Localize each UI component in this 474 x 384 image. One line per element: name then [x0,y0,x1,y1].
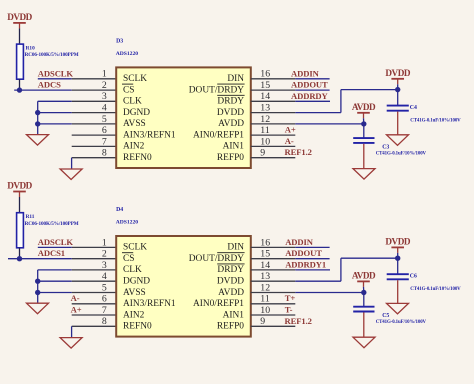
svg-text:8: 8 [102,148,107,159]
power symbol AVDD [352,102,376,118]
power symbol DVDD [385,237,410,253]
svg-text:R10: R10 [26,46,35,52]
wire DVDD net pin13 [295,87,400,113]
wire R10 lead [19,79,21,90]
power symbol AVDD [352,271,376,287]
wire AVDD drop [363,118,365,124]
svg-text:ADSCLK: ADSCLK [38,68,74,78]
svg-text:2: 2 [102,249,107,260]
svg-text:DRDY: DRDY [217,97,244,107]
ground [60,338,82,349]
svg-text:D4: D4 [116,207,123,213]
svg-text:4: 4 [102,103,107,114]
node REF1.2 label [285,316,312,326]
node ADSCLK label [38,237,74,247]
svg-text:REFP0: REFP0 [217,153,244,163]
wire DVDD net pin13 [295,256,400,282]
svg-text:A+: A+ [71,305,82,315]
svg-text:CS: CS [123,254,134,264]
resistor R11 [17,213,79,248]
svg-text:14: 14 [260,91,270,102]
svg-text:CT41G-0.1uF/10%/100V: CT41G-0.1uF/10%/100V [376,152,427,157]
svg-text:AVSS: AVSS [123,288,146,298]
pin numbers 16-9 [260,69,270,159]
svg-text:DOUT/DRDY: DOUT/DRDY [189,85,244,95]
svg-text:REFN0: REFN0 [123,322,152,332]
svg-text:ADCS: ADCS [38,80,61,90]
svg-text:ADDRDY: ADDRDY [291,91,329,101]
pin numbers 1-8 [102,237,107,327]
IC D3 left pins 1-8 [72,79,117,158]
svg-text:3: 3 [102,91,107,102]
svg-text:2: 2 [102,80,107,91]
svg-text:5: 5 [102,114,107,125]
svg-text:SCLK: SCLK [123,243,147,253]
svg-text:7: 7 [102,136,107,147]
wire DVDD to R10 [19,28,21,44]
svg-text:12: 12 [260,282,270,293]
svg-text:16: 16 [260,237,270,248]
svg-text:5: 5 [102,282,107,293]
resistor R10 [17,44,79,79]
svg-text:1: 1 [102,237,107,248]
wire REFN0 to ground [71,158,73,169]
pin numbers 1-8 [102,69,107,159]
svg-text:ADDRDY1: ADDRDY1 [285,259,326,269]
svg-text:DVDD: DVDD [217,277,244,287]
node ADDRDY1 label [285,259,326,269]
ground [387,303,409,314]
node ADCS label [38,80,61,90]
svg-text:T+: T+ [285,293,296,303]
wire net ADDOUT [295,89,329,91]
svg-text:DIN: DIN [227,243,244,253]
node REF1.2 label [285,147,312,157]
node A+ label [285,125,296,135]
svg-text:AVSS: AVSS [123,119,146,129]
op-amp/IC D4 ADS1220 [116,207,251,337]
svg-text:15: 15 [260,249,270,260]
svg-text:C4: C4 [410,105,417,111]
svg-text:9: 9 [260,316,265,327]
svg-text:AIN3/REFN1: AIN3/REFN1 [123,299,176,309]
svg-text:DRDY: DRDY [217,265,244,275]
svg-text:DGND: DGND [123,277,150,287]
wire DVDD drop [397,253,399,258]
node T- label [285,305,293,315]
svg-text:10: 10 [260,305,270,316]
svg-text:ADDIN: ADDIN [285,237,314,247]
svg-text:AIN0/REFP1: AIN0/REFP1 [193,299,244,309]
wire net ADSCLK [38,78,72,80]
wire DVDD to R11 [19,197,21,213]
capacitor C5 [353,293,426,338]
node A+ label [71,305,82,315]
node ADDRDY label [291,91,329,101]
svg-text:DVDD: DVDD [385,68,410,78]
svg-text:ADDOUT: ADDOUT [285,248,322,258]
svg-text:DVDD: DVDD [385,237,410,247]
wire net ADDRDY [295,100,330,102]
svg-text:C5: C5 [382,313,389,319]
wire net ADDIN [295,78,329,80]
svg-text:13: 13 [260,103,270,114]
svg-text:REF1.2: REF1.2 [285,316,312,326]
svg-text:AIN3/REFN1: AIN3/REFN1 [123,130,176,140]
svg-text:CLK: CLK [123,97,142,107]
node ADDOUT label [291,80,328,90]
wire R11 lead [19,248,21,259]
wire CLK/DGND/AVSS to ground [35,101,72,134]
svg-text:R11: R11 [26,214,35,220]
node ADDOUT label [285,248,322,258]
svg-text:T-: T- [285,305,293,315]
pin numbers 16-9 [260,237,270,327]
node A- label [71,293,80,303]
svg-text:CS: CS [123,85,134,95]
power symbol DVDD [7,12,32,28]
ground [353,169,375,180]
svg-text:AVDD: AVDD [352,271,376,281]
power symbol DVDD [7,181,32,197]
svg-text:8: 8 [102,316,107,327]
svg-text:REFN0: REFN0 [123,153,152,163]
svg-text:SCLK: SCLK [123,74,147,84]
wire DVDD drop [397,84,399,89]
node ADDIN label [291,68,320,78]
svg-text:A+: A+ [285,125,296,135]
svg-text:C3: C3 [382,145,389,151]
svg-text:11: 11 [260,125,270,136]
ground [387,135,409,146]
ground [60,169,82,180]
node ADSCLK label [38,68,74,78]
svg-text:REFP0: REFP0 [217,322,244,332]
svg-text:12: 12 [260,114,270,125]
svg-text:7: 7 [102,305,107,316]
svg-text:DVDD: DVDD [7,12,32,22]
svg-text:ADSCLK: ADSCLK [38,237,74,247]
svg-text:DOUT/DRDY: DOUT/DRDY [189,254,244,264]
wire net ADCS [14,87,71,92]
power symbol DVDD [385,68,410,84]
wire net ADDOUT [295,258,329,260]
svg-text:D3: D3 [116,38,123,44]
IC D3 right pins 16-9 [251,79,295,158]
wire CLK/DGND/AVSS to ground [35,270,72,303]
svg-text:DIN: DIN [227,74,244,84]
svg-text:AIN1: AIN1 [223,142,245,152]
svg-text:ADS1220: ADS1220 [116,219,139,225]
svg-text:DGND: DGND [123,108,150,118]
wire REFN0 to ground [71,326,73,337]
wire net ADSCLK [38,246,72,248]
wire net ADDRDY1 [295,269,330,271]
svg-text:AIN0/REFP1: AIN0/REFP1 [193,130,244,140]
svg-text:3: 3 [102,260,107,271]
svg-text:REF1.2: REF1.2 [285,147,312,157]
svg-text:10: 10 [260,136,270,147]
svg-text:AIN1: AIN1 [223,310,245,320]
svg-text:6: 6 [102,125,107,136]
svg-text:CT41G-0.1uF/10%/100V: CT41G-0.1uF/10%/100V [410,118,461,123]
svg-text:RC06-100K/5%/100PPM: RC06-100K/5%/100PPM [25,221,79,227]
svg-text:CLK: CLK [123,265,142,275]
svg-text:AVDD: AVDD [352,102,376,112]
capacitor C4 [387,90,461,135]
svg-text:A-: A- [71,293,80,303]
node ADCS1 label [38,248,65,258]
svg-text:14: 14 [260,260,270,271]
op-amp/IC D3 ADS1220 [116,38,251,168]
svg-text:ADS1220: ADS1220 [116,51,139,57]
svg-text:13: 13 [260,271,270,282]
wire net ADCS1 [8,256,72,261]
ground [353,337,375,348]
IC D4 right pins 16-9 [251,247,295,326]
svg-text:AIN2: AIN2 [123,310,145,320]
svg-text:ADDIN: ADDIN [291,68,320,78]
wire AVDD drop [363,287,365,293]
node T+ label [285,293,296,303]
svg-text:15: 15 [260,80,270,91]
svg-text:RC06-100K/5%/100PPM: RC06-100K/5%/100PPM [25,52,79,58]
svg-text:DVDD: DVDD [217,108,244,118]
svg-text:CT41G-0.1uF/10%/100V: CT41G-0.1uF/10%/100V [410,287,461,292]
svg-text:AIN2: AIN2 [123,142,145,152]
svg-text:DVDD: DVDD [7,181,32,191]
svg-text:A-: A- [285,136,294,146]
svg-text:AVDD: AVDD [218,119,244,129]
capacitor C6 [387,258,461,303]
wire AVDD net pin12 [295,121,366,126]
svg-text:11: 11 [260,294,270,305]
svg-text:4: 4 [102,271,107,282]
node A- label [285,136,294,146]
svg-text:ADCS1: ADCS1 [38,248,65,258]
ground [27,303,49,314]
svg-text:1: 1 [102,69,107,80]
svg-text:16: 16 [260,69,270,80]
svg-text:C6: C6 [410,273,417,279]
svg-text:6: 6 [102,294,107,305]
node ADDIN label [285,237,314,247]
svg-text:9: 9 [260,148,265,159]
capacitor C3 [353,124,426,169]
wire AVDD net pin12 [295,290,366,295]
svg-text:ADDOUT: ADDOUT [291,80,328,90]
ground [27,135,49,146]
wire net ADDIN [295,246,329,248]
svg-text:AVDD: AVDD [218,288,244,298]
svg-text:CT41G-0.1uF/10%/100V: CT41G-0.1uF/10%/100V [376,320,427,325]
IC D4 left pins 1-8 [72,247,117,326]
